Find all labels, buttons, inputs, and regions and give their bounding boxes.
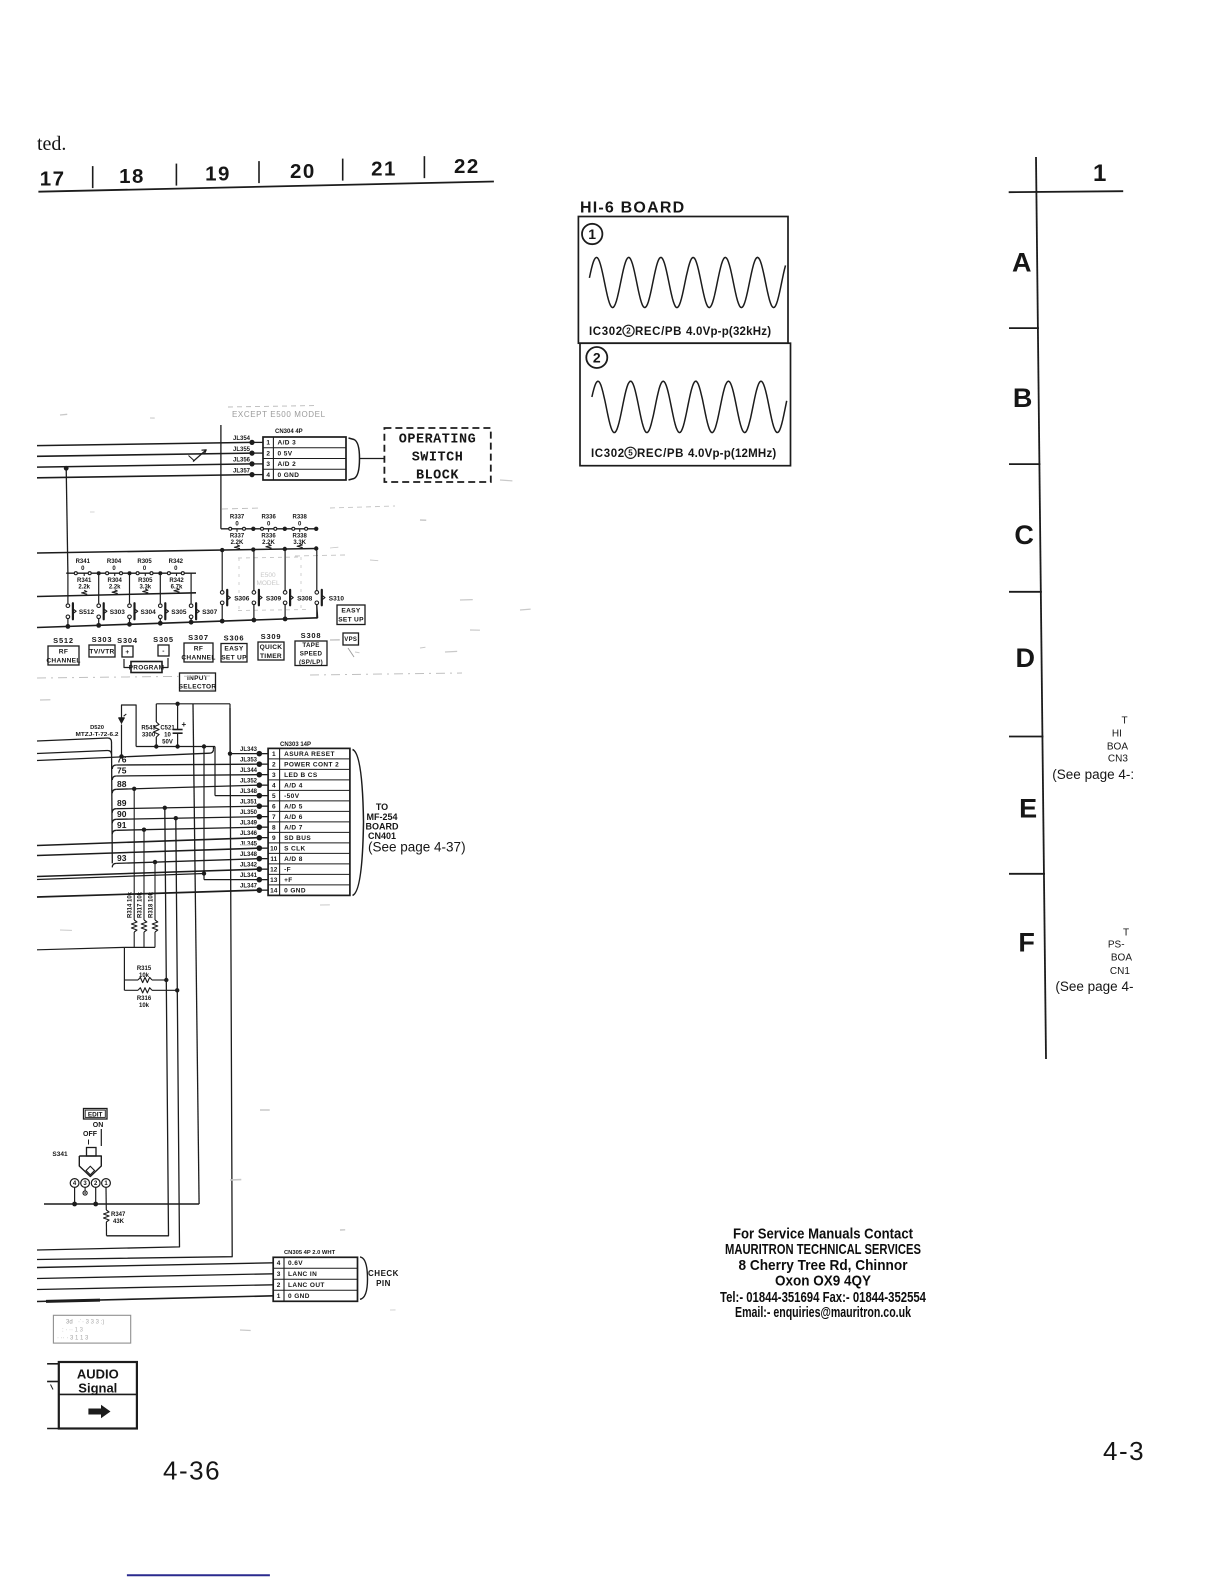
wire JL355 to CN304 pin 2 [37, 453, 252, 456]
svg-text:CN3: CN3 [1108, 754, 1128, 765]
resistor R337 0 ohm jumper [229, 527, 232, 530]
svg-text:R342: R342 [169, 559, 184, 565]
wire vertical bundle [111, 742, 114, 863]
svg-text:5: 5 [628, 449, 633, 458]
VPS pointer mark [348, 648, 354, 657]
connector CN304 4P body [263, 437, 346, 480]
svg-text:MODEL: MODEL [256, 580, 280, 587]
wire S341 t2 to bus [95, 1188, 97, 1205]
svg-text:QUICK: QUICK [260, 644, 283, 651]
svg-text:ted.: ted. [37, 133, 66, 155]
svg-text:10k: 10k [139, 1003, 150, 1009]
svg-text:R337: R337 [230, 534, 245, 540]
wire column for S303 [98, 573, 100, 603]
svg-text:R315: R315 [137, 966, 152, 972]
svg-text:19: 19 [205, 163, 231, 186]
svg-text:T: T [1122, 715, 1128, 726]
svg-text:S303: S303 [92, 635, 113, 644]
resistor R338 0 ohm jumper [292, 527, 295, 530]
EASY SET UP caption box right [337, 605, 365, 625]
svg-text:JL351: JL351 [240, 800, 258, 806]
svg-text:A: A [1012, 248, 1032, 278]
svg-text:R338: R338 [293, 515, 308, 521]
svg-text:TIMER: TIMER [260, 653, 282, 660]
svg-text:10: 10 [164, 733, 171, 739]
svg-text:11: 11 [270, 856, 277, 863]
svg-text:(See page 4-37): (See page 4-37) [368, 840, 466, 855]
svg-text:S307: S307 [188, 633, 209, 642]
wire loop over D520 [122, 705, 137, 747]
wire feeder row 2 [37, 751, 108, 754]
waveform 1 sine trace 32kHz [589, 257, 785, 307]
svg-text:4-36: 4-36 [163, 1456, 221, 1486]
wire JL356 to CN304 pin 3 [37, 464, 252, 467]
resistor R318 10k [154, 862, 156, 920]
wire to CN305 pin 2 [37, 1285, 273, 1290]
svg-text:S305: S305 [171, 609, 187, 616]
wire column for S306 [221, 551, 223, 591]
svg-text:10: 10 [270, 846, 278, 853]
wire 89 to CN303 pin 6 [112, 809, 116, 813]
svg-text:90: 90 [117, 809, 127, 819]
resistor R342 0 ohm jumper [167, 572, 170, 575]
svg-text:EASY: EASY [341, 608, 360, 615]
junction dots on R337 buses [251, 527, 255, 531]
svg-text:Email:- enquiries@mauritron.co: Email:- enquiries@mauritron.co.uk [735, 1304, 911, 1321]
switch S307 [189, 604, 193, 608]
svg-text:3.3K: 3.3K [293, 540, 306, 546]
wire label JL350 [259, 816, 268, 818]
switch S309 [252, 591, 256, 595]
annotation arrow on wire [193, 451, 206, 462]
waveform callout 1 circled [582, 224, 602, 244]
svg-text:9: 9 [272, 835, 276, 842]
svg-text:EASY: EASY [224, 646, 243, 653]
svg-text:EDIT: EDIT [88, 1111, 103, 1118]
wire to CN305 pin 4 [37, 1263, 273, 1268]
wire feeder row 3 (to -50V riser) [37, 753, 210, 760]
wire to CN305 pin 3 [37, 1274, 273, 1279]
svg-text:JL346: JL346 [240, 831, 258, 837]
svg-text:BOARD: BOARD [366, 822, 399, 832]
wire D520 cathode down [121, 725, 123, 757]
svg-text:R304: R304 [107, 559, 122, 565]
svg-text:EXCEPT E500 MODEL: EXCEPT E500 MODEL [232, 410, 326, 419]
wire -50V bus [136, 746, 215, 748]
svg-text:MTZJ-T-72-6.2: MTZJ-T-72-6.2 [76, 732, 119, 738]
wire label JL345 [259, 847, 268, 849]
wire trunk A [107, 808, 169, 1236]
svg-text:LANC IN: LANC IN [288, 1271, 317, 1278]
wire column for S309 [253, 551, 255, 591]
svg-text:C: C [1014, 520, 1034, 550]
wire 93 to CN303 pin 11 [112, 863, 116, 867]
legend arrow [88, 1405, 110, 1418]
svg-text:D520: D520 [90, 725, 104, 731]
svg-text:CHECK: CHECK [368, 1269, 399, 1278]
svg-text:CN1: CN1 [1110, 966, 1130, 977]
svg-text:R341: R341 [77, 578, 92, 584]
junction dots on R341 bus [97, 571, 101, 575]
svg-text:RF: RF [194, 645, 203, 652]
svg-text:JL347: JL347 [240, 884, 258, 890]
resistor R304 0 ohm jumper [106, 572, 109, 575]
svg-text:4.0Vp-p(32kHz): 4.0Vp-p(32kHz) [686, 326, 771, 338]
resistor R338 3.3K [299, 529, 301, 532]
wire S310 bottom riser [316, 605, 319, 618]
VPS caption box [343, 633, 359, 645]
grid row tick 3 [1009, 591, 1042, 593]
svg-text:2.2K: 2.2K [231, 540, 244, 546]
svg-text:OFF: OFF [83, 1131, 98, 1138]
switch S305 [159, 604, 163, 608]
resistor R336 0 ohm jumper [261, 527, 264, 530]
svg-text:REC/PB: REC/PB [637, 448, 684, 460]
wire bus below R337 group [37, 549, 316, 554]
svg-text:88: 88 [117, 779, 127, 789]
wire 88 to CN303 pin 4 [112, 789, 116, 793]
wire label JL343 [259, 753, 268, 755]
wire JL357 to CN304 pin 4 [37, 475, 252, 478]
svg-text:JL348: JL348 [240, 789, 258, 795]
ruler tick at 176.4 [175, 164, 177, 186]
svg-text:S308: S308 [297, 596, 313, 603]
top ruler line [38, 182, 494, 192]
grid row tick 4 [1009, 736, 1043, 738]
svg-text:SET UP: SET UP [221, 655, 247, 662]
svg-text:0 GND: 0 GND [278, 472, 300, 479]
svg-text:R317 10k: R317 10k [138, 891, 144, 918]
svg-text:S CLK: S CLK [284, 846, 306, 853]
grid column border line [1036, 157, 1046, 1059]
wire label JL348 [259, 858, 268, 860]
svg-text:LED B CS: LED B CS [284, 772, 318, 779]
svg-text:LANC OUT: LANC OUT [288, 1282, 325, 1289]
svg-text:2.2k: 2.2k [78, 585, 90, 591]
resistor R341 2.2k [83, 573, 85, 576]
faint inspection stamp [53, 1315, 130, 1343]
wire bus below R341 group [37, 593, 196, 597]
svg-text:CHANNEL: CHANNEL [46, 657, 80, 664]
PROGRAM group bracket [124, 659, 131, 668]
INPUT SELECTOR caption box [180, 673, 216, 691]
svg-text:TAPE: TAPE [302, 642, 319, 649]
svg-text:S309: S309 [266, 596, 282, 603]
svg-text:1: 1 [588, 226, 596, 242]
svg-text:R337: R337 [230, 515, 245, 521]
svg-text:JL342: JL342 [240, 863, 258, 869]
svg-text:R338: R338 [293, 534, 308, 540]
svg-text:4: 4 [277, 1260, 281, 1267]
resistor R337 2.2K [236, 529, 238, 532]
svg-text:3: 3 [277, 1271, 281, 1278]
svg-text:A/D 5: A/D 5 [284, 804, 303, 811]
svg-text:REC/PB: REC/PB [635, 326, 682, 338]
S341 terminal 3 stub [84, 1188, 86, 1192]
svg-text:21: 21 [371, 158, 397, 181]
svg-text:S512: S512 [79, 609, 95, 616]
wire lower bus [44, 1203, 199, 1205]
switch S512 [66, 604, 70, 608]
wire column for S512 [67, 573, 69, 603]
svg-text:ON: ON [93, 1122, 104, 1129]
svg-text:S309: S309 [261, 632, 282, 641]
svg-text:A/D 2: A/D 2 [278, 461, 297, 468]
svg-text:JL343: JL343 [240, 747, 258, 753]
svg-text:JL350: JL350 [240, 810, 258, 816]
wire column for S305 [159, 573, 161, 603]
svg-text:S306: S306 [224, 634, 245, 643]
resistor R305 3.3k [144, 573, 146, 576]
wire trunk C [193, 704, 199, 1204]
wire column for S310 [316, 551, 318, 591]
wire to CN305 pin 1 [37, 1296, 273, 1302]
svg-text:3300: 3300 [142, 733, 156, 739]
wire column for S308 [284, 551, 286, 591]
svg-text:S308: S308 [301, 631, 322, 640]
svg-text:CN305 4P 2.0 WHT: CN305 4P 2.0 WHT [284, 1250, 336, 1256]
svg-text:SD BUS: SD BUS [284, 835, 311, 842]
wire trunk B [37, 818, 180, 1250]
connector CN305 4P body [273, 1257, 357, 1301]
svg-text:JL353: JL353 [240, 758, 258, 764]
svg-text:For Service Manuals Contact: For Service Manuals Contact [733, 1225, 913, 1242]
svg-text:7: 7 [272, 814, 276, 821]
wire label JL353 [259, 763, 268, 765]
resistor R341 0 ohm jumper [74, 572, 77, 575]
wire long SD BUS [37, 838, 259, 846]
svg-text:93: 93 [117, 853, 127, 863]
svg-text:HI-6 BOARD: HI-6 BOARD [580, 200, 685, 217]
wire pin13 +F riser [203, 747, 205, 880]
resistor R336 2.2K [268, 529, 270, 532]
svg-text:Signal: Signal [78, 1381, 117, 1396]
svg-text:AUDIO: AUDIO [77, 1367, 119, 1382]
resistor R342 6.7k [176, 573, 178, 576]
svg-text:R336: R336 [261, 515, 276, 521]
svg-text:0 GND: 0 GND [284, 888, 306, 895]
svg-text:R305: R305 [138, 578, 153, 584]
svg-text:-: - [162, 648, 165, 655]
svg-text:22: 22 [454, 155, 480, 178]
wire feeder row 1 [37, 738, 108, 741]
svg-text:R304: R304 [108, 578, 123, 584]
svg-text:ASURA RESET: ASURA RESET [284, 751, 335, 758]
svg-text:PIN: PIN [376, 1279, 391, 1288]
svg-text:Oxon OX9 4QY: Oxon OX9 4QY [775, 1273, 871, 1290]
wire trunk D [37, 708, 232, 1260]
S341 terminal 1 [102, 1179, 111, 1188]
svg-text:: · ·· 1 3: : · ·· 1 3 [62, 1328, 84, 1334]
svg-text:HI: HI [1112, 729, 1122, 740]
svg-text:2: 2 [277, 1282, 281, 1289]
svg-text:SET UP: SET UP [338, 617, 364, 624]
waveform callout 2 circled [586, 347, 607, 368]
wire label JL346 [259, 837, 268, 839]
svg-text:2.2K: 2.2K [262, 540, 275, 546]
svg-text:(See page 4-: (See page 4- [1055, 979, 1133, 994]
scan noise (decorative) [60, 413, 67, 416]
wire pin1 riser [229, 704, 231, 754]
S341 terminal 2 [91, 1179, 100, 1188]
resistor R304 2.2k [114, 573, 116, 576]
svg-text:1: 1 [1093, 160, 1106, 187]
svg-text:S304: S304 [117, 636, 138, 645]
svg-text:(See page 4-:: (See page 4-: [1052, 767, 1134, 782]
ruler tick at 259.0 [258, 161, 260, 183]
ruler tick at 342.7 [342, 159, 344, 181]
wire label JL348 [259, 795, 268, 797]
wire long -F [37, 869, 259, 876]
svg-text:20: 20 [290, 160, 316, 183]
svg-text:TO: TO [376, 802, 388, 812]
svg-text:2.2k: 2.2k [109, 585, 121, 591]
EDIT caption box [84, 1109, 108, 1120]
wire label JL352 [259, 784, 268, 786]
svg-text:14: 14 [270, 888, 278, 895]
wire joining pull resistors [124, 946, 155, 948]
wire bottom bus of switch matrix [37, 618, 318, 628]
svg-text:CHANNEL: CHANNEL [181, 654, 215, 661]
svg-text:·˙· 3 3 3 :): ·˙· 3 3 3 :) [78, 1320, 104, 1326]
svg-text:R341: R341 [76, 559, 91, 565]
svg-text:· ·· · 3 1 1 3: · ·· · 3 1 1 3 [57, 1336, 89, 1342]
wire 76 to CN303 pin 2 [112, 765, 116, 769]
wire from left edge to pull resistor rail [37, 947, 124, 949]
blue underline mark [127, 1574, 270, 1576]
svg-text:S341: S341 [52, 1151, 68, 1158]
svg-text:75: 75 [117, 766, 127, 776]
grid column top rule [1009, 191, 1123, 192]
svg-text:13: 13 [270, 877, 278, 884]
wire top rail of C521 group [156, 703, 193, 705]
svg-text:JL349: JL349 [240, 821, 258, 827]
CN304 right brace [349, 438, 360, 480]
wire bus R341 group top [66, 572, 196, 574]
svg-text:1: 1 [272, 751, 276, 758]
svg-text:(SP/LP): (SP/LP) [299, 659, 323, 666]
svg-text:6.7k: 6.7k [171, 585, 183, 591]
svg-text:MAURITRON TECHNICAL SERVICES: MAURITRON TECHNICAL SERVICES [725, 1241, 921, 1258]
svg-text:1: 1 [266, 440, 270, 447]
CN305 right bracket [360, 1257, 368, 1299]
wire label JL344 [259, 774, 268, 776]
svg-text:8: 8 [272, 825, 276, 832]
wire vertical feeder right [220, 425, 222, 529]
wire 91 to CN303 pin 8 [112, 830, 116, 834]
wire long aux to riser [37, 874, 204, 880]
svg-text:TV/VTR: TV/VTR [89, 648, 114, 655]
svg-text:JL354: JL354 [233, 436, 251, 442]
svg-text:R305: R305 [137, 559, 152, 565]
svg-text:B: B [1013, 383, 1033, 413]
svg-text:5: 5 [272, 793, 276, 800]
connector CN303 14P body [268, 748, 350, 895]
svg-text:3: 3 [266, 461, 270, 468]
svg-text:2: 2 [266, 450, 270, 457]
svg-text:-F: -F [284, 867, 291, 874]
svg-text:+: + [125, 649, 129, 656]
wire JL354 to CN304 pin 1 [37, 442, 252, 445]
S341 terminal 3 [81, 1179, 90, 1188]
svg-text:2: 2 [626, 327, 631, 336]
svg-text:POWER CONT 2: POWER CONT 2 [284, 762, 339, 769]
svg-text:R342: R342 [169, 578, 184, 584]
svg-text:R347: R347 [111, 1212, 126, 1218]
resistor R347 43K [104, 1210, 110, 1222]
waveform 2 sine trace 12MHz [592, 381, 787, 432]
svg-text:BOA: BOA [1111, 953, 1132, 964]
svg-text:0.6V: 0.6V [288, 1260, 303, 1267]
svg-text:JL344: JL344 [240, 768, 258, 774]
svg-text:+F: +F [284, 877, 293, 884]
svg-text:+: + [182, 720, 187, 729]
ruler tick at 92.7 [92, 166, 94, 188]
CN303 right brace [353, 750, 364, 896]
svg-text:JL355: JL355 [233, 447, 251, 453]
resistor R305 0 ohm jumper [136, 572, 139, 575]
resistor R317 10k [143, 830, 145, 920]
grid row tick 1 [1009, 327, 1039, 329]
wire label JL341 [259, 879, 268, 881]
svg-text:C521: C521 [160, 726, 175, 732]
svg-text:4.0Vp-p(12MHz): 4.0Vp-p(12MHz) [688, 448, 776, 460]
S341 terminal 4 [70, 1179, 79, 1188]
svg-text:3.3k: 3.3k [139, 585, 151, 591]
wire link to pin1 riser [193, 703, 230, 705]
svg-text:PS-: PS- [1108, 940, 1125, 951]
svg-text:S305: S305 [153, 635, 174, 644]
wire long 0 GND [37, 890, 259, 897]
svg-text:BLOCK: BLOCK [416, 469, 459, 484]
resistor R314 10k [133, 789, 135, 920]
svg-text:2: 2 [272, 762, 276, 769]
wire bus R337 group top [221, 528, 316, 530]
svg-text:R314 10k: R314 10k [128, 891, 134, 918]
switch S304 [128, 604, 132, 608]
svg-text:CN303 14P: CN303 14P [280, 742, 311, 748]
svg-text:91: 91 [117, 820, 127, 830]
switch S306 [220, 591, 224, 595]
wire vertical feeder left [66, 468, 68, 573]
wire long S CLK [37, 848, 259, 855]
svg-text:A/D 3: A/D 3 [278, 440, 297, 447]
switch S308 [283, 591, 287, 595]
svg-text:OPERATING: OPERATING [399, 433, 476, 448]
svg-text:F: F [1018, 928, 1035, 958]
AUDIO signal legend box [59, 1362, 137, 1429]
svg-text:18: 18 [119, 165, 145, 188]
svg-text:CN304 4P: CN304 4P [275, 429, 303, 435]
svg-text:JL341: JL341 [240, 873, 258, 879]
svg-text:4: 4 [272, 783, 276, 790]
svg-text:D: D [1015, 643, 1035, 673]
svg-text:T: T [1123, 928, 1129, 939]
svg-text:0 5V: 0 5V [278, 450, 293, 457]
wire column for S304 [129, 573, 131, 603]
wire S341 t1 down [105, 1188, 107, 1211]
svg-text:4: 4 [266, 472, 270, 479]
wire label JL347 [259, 889, 268, 891]
wire label JL342 [259, 868, 268, 870]
wire 75 to CN303 pin 3 [112, 776, 116, 780]
svg-text:JL356: JL356 [233, 458, 251, 464]
svg-text:S304: S304 [141, 609, 157, 616]
svg-text:50V: 50V [162, 740, 173, 746]
svg-text:2: 2 [593, 350, 601, 366]
svg-text:RF: RF [59, 648, 68, 655]
svg-text:3: 3 [272, 772, 276, 779]
